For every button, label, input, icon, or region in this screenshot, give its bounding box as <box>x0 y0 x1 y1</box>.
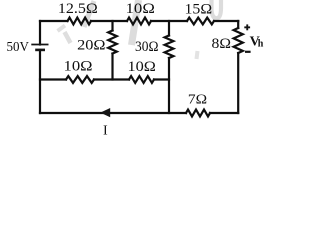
watermark chevron lower <box>65 32 71 43</box>
wire middle rail segment 2 <box>94 78 129 80</box>
wire right rail lower <box>237 53 239 113</box>
watermark stroke left <box>84 1 94 27</box>
svg-text:h: h <box>258 39 264 50</box>
svg-text:10Ω: 10Ω <box>126 1 155 17</box>
svg-text:12.5Ω: 12.5Ω <box>58 1 98 17</box>
resistor R6 30ohm <box>165 36 174 59</box>
label minus sign <box>245 51 251 53</box>
svg-text:50V: 50V <box>7 40 29 55</box>
resistor R3 15ohm <box>187 18 214 25</box>
wire 20ohm top lead <box>111 21 113 31</box>
wire left rail upper <box>39 21 41 45</box>
svg-text:10Ω: 10Ω <box>64 59 93 75</box>
resistor R7 10ohm middle-left <box>66 76 94 83</box>
resistor R1 12.5ohm <box>68 18 92 25</box>
wire 20ohm bottom lead <box>111 54 113 80</box>
wire top rail segment 1 <box>40 20 68 22</box>
svg-text:15Ω: 15Ω <box>185 2 213 18</box>
resistor R2 10ohm top <box>127 18 151 25</box>
wire middle rail segment 3 <box>154 78 169 80</box>
resistor R5 20ohm <box>108 31 117 54</box>
wire 30ohm bottom to bottom rail <box>168 58 170 113</box>
battery V1 long plate <box>31 44 48 46</box>
svg-text:7Ω: 7Ω <box>188 93 207 108</box>
wire 30ohm top lead <box>168 21 170 36</box>
wire right rail upper lead <box>237 21 239 28</box>
svg-text:20Ω: 20Ω <box>77 37 105 53</box>
svg-text:10Ω: 10Ω <box>128 59 156 75</box>
svg-text:I: I <box>103 124 108 139</box>
wire top rail segment 4 <box>214 20 238 22</box>
watermark chevron upper <box>58 26 66 32</box>
resistor R4 8ohm <box>234 28 243 53</box>
label plus sign <box>244 24 250 30</box>
wire bottom rail right <box>210 112 238 114</box>
watermark stroke middle <box>132 0 139 45</box>
wire middle rail segment 1 <box>40 78 66 80</box>
wire bottom rail left <box>40 112 186 114</box>
svg-text:8Ω: 8Ω <box>212 36 232 52</box>
watermark blob left of 8ohm <box>197 51 198 59</box>
wire top rail segment 2 <box>91 20 127 22</box>
svg-text:30Ω: 30Ω <box>135 39 159 55</box>
watermark stroke right U shape <box>212 0 222 18</box>
resistor R9 7ohm <box>186 110 210 117</box>
battery V1 short plate <box>35 49 45 52</box>
wire left rail lower <box>39 50 41 113</box>
resistor R8 10ohm middle-right <box>129 76 154 83</box>
wire top rail segment 3 <box>151 20 187 22</box>
current arrow I <box>100 108 110 117</box>
